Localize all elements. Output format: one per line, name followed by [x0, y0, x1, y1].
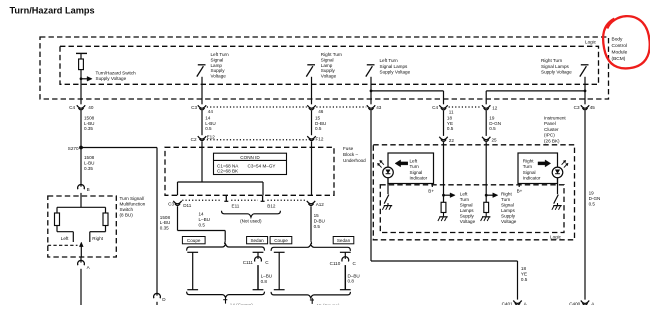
svg-text:Multifunction: Multifunction	[120, 201, 146, 206]
svg-text:B+: B+	[428, 188, 434, 193]
svg-text:Signal Lamps: Signal Lamps	[380, 64, 409, 69]
svg-text:Left Turn: Left Turn	[211, 52, 230, 57]
svg-text:Supply Voltage: Supply Voltage	[541, 69, 572, 74]
svg-text:Left: Left	[410, 158, 418, 163]
wire C3-44 to fuse block E12	[201, 111, 203, 136]
svg-text:Right: Right	[92, 236, 103, 241]
svg-text:Voltage: Voltage	[321, 74, 337, 79]
switch SW-LL in BCM logic	[367, 64, 375, 66]
connector C2 pin E12 of fuse block	[198, 136, 206, 139]
node junction right lamps sense	[485, 194, 488, 197]
svg-text:Instrument: Instrument	[544, 115, 566, 120]
svg-text:L–BU: L–BU	[199, 217, 211, 222]
svg-text:18: 18	[447, 115, 453, 120]
wire S270 branch to D connector drop	[81, 147, 157, 149]
dotted connector-group line row3	[182, 199, 221, 201]
option label Coupe (left)	[182, 237, 205, 244]
svg-text:(IPC): (IPC)	[544, 133, 555, 138]
wire fuse block internal bus	[178, 181, 264, 183]
connector IPC pin 22	[439, 137, 447, 140]
svg-text:Sedan: Sedan	[250, 238, 264, 243]
svg-text:C110: C110	[330, 261, 341, 266]
wire A12 to right option brace	[310, 206, 312, 241]
wire LED to driver switch left	[387, 178, 389, 195]
connector C110 pin C	[342, 257, 349, 262]
option label Coupe (right)	[270, 237, 292, 244]
wire bus stub to D11	[177, 182, 179, 195]
svg-text:B12: B12	[267, 204, 276, 209]
svg-text:S270: S270	[68, 146, 79, 151]
svg-text:44: 44	[208, 109, 214, 114]
wire below connector A to bottom	[80, 269, 82, 305]
switch driver left	[384, 195, 389, 204]
svg-text:Block –: Block –	[343, 152, 359, 157]
svg-text:Signal: Signal	[321, 57, 334, 62]
svg-text:E12: E12	[207, 135, 216, 140]
switch SW-R in BCM logic	[307, 64, 315, 66]
svg-text:Control: Control	[612, 43, 627, 49]
connector C400 pin A	[581, 301, 589, 304]
svg-text:Voltage: Voltage	[211, 74, 227, 79]
BCM outer dashed box	[40, 37, 609, 99]
wire right coupe option	[274, 251, 285, 253]
svg-text:0.8: 0.8	[261, 279, 268, 284]
wire LED to driver switch right	[557, 178, 559, 195]
brace merge left group	[187, 292, 265, 298]
svg-text:Cluster: Cluster	[544, 127, 559, 132]
dotted connector-group line row1 right	[449, 106, 482, 108]
svg-text:Left: Left	[460, 191, 468, 196]
wire 12 to IPC connector 25	[485, 111, 487, 136]
wire across bottom to C401	[371, 260, 518, 262]
connector C401 pin A	[513, 301, 521, 304]
node junction stem5 branch	[584, 90, 587, 93]
wire B into switch	[80, 193, 82, 207]
svg-text:Signal: Signal	[211, 57, 224, 62]
svg-text:Turn/Hazard Lamps: Turn/Hazard Lamps	[10, 6, 95, 16]
svg-text:19: 19	[589, 191, 595, 196]
svg-text:25: 25	[492, 138, 498, 143]
svg-text:D-GN: D-GN	[589, 196, 601, 201]
splice S270	[79, 146, 83, 150]
connector C111 pin C	[255, 257, 262, 262]
svg-text:D11: D11	[183, 203, 192, 208]
wire branch to connector 12	[486, 90, 585, 92]
svg-text:Module: Module	[612, 50, 628, 56]
BCM inner logic dashed box	[60, 46, 599, 84]
svg-text:(Not used): (Not used)	[240, 218, 262, 223]
node junction left lamps sense	[442, 194, 445, 197]
arrow right direction (filled)	[538, 162, 546, 165]
connector IPC pin 25	[482, 137, 490, 140]
connector C3 pin D11	[173, 201, 181, 204]
IPC inner logic dashed box	[380, 185, 564, 233]
light rays left indicator	[381, 161, 384, 165]
power bar terminal, stem 1	[76, 52, 87, 54]
svg-text:14: 14	[205, 116, 211, 121]
LED lamp right indicator	[552, 167, 563, 178]
connector C3 pin 45	[581, 105, 589, 108]
connector C3 pin 44	[198, 105, 206, 108]
stub pin E11 not used	[225, 195, 227, 201]
svg-text:C111: C111	[243, 260, 254, 265]
indicator box Left Turn Signal Indicator	[388, 153, 434, 184]
svg-text:0.5: 0.5	[314, 224, 321, 229]
svg-text:Right: Right	[523, 158, 534, 163]
svg-text:Lamps: Lamps	[460, 208, 474, 213]
svg-text:L-BU: L-BU	[160, 220, 170, 225]
switch SW-RR in BCM logic	[581, 64, 589, 66]
Turn Signal/Multifunction Switch dashed box	[48, 196, 117, 257]
svg-text:(8 BU): (8 BU)	[120, 212, 134, 217]
wire switch to connector A	[80, 257, 82, 263]
svg-text:Supply: Supply	[321, 68, 336, 73]
svg-text:C1=68 NA: C1=68 NA	[217, 163, 239, 168]
svg-text:Indicator: Indicator	[523, 176, 541, 181]
svg-text:1508: 1508	[84, 116, 95, 121]
svg-text:C401: C401	[502, 301, 513, 305]
wire below connector D	[156, 302, 158, 305]
wire left coupe option	[187, 251, 198, 253]
svg-text:(26 BK): (26 BK)	[544, 138, 560, 143]
wire right sedan option with C110	[340, 251, 351, 253]
wire 25 into IPC	[485, 142, 487, 202]
mechanical linkage dashed line	[48, 244, 78, 246]
Fuse Block Underhood dashed box	[165, 147, 334, 195]
svg-text:C400: C400	[569, 301, 580, 305]
svg-text:0.35: 0.35	[160, 225, 169, 230]
svg-text:C3: C3	[168, 202, 174, 207]
svg-text:Supply Voltage: Supply Voltage	[380, 69, 411, 74]
svg-text:Turn/Hazard Switch: Turn/Hazard Switch	[96, 71, 137, 76]
svg-text:0.5: 0.5	[205, 126, 212, 131]
svg-text:C2=68 BK: C2=68 BK	[217, 169, 239, 174]
resistor right coil of switch	[103, 213, 108, 226]
svg-text:0.35: 0.35	[84, 126, 93, 131]
svg-text:L-BU: L-BU	[205, 121, 215, 126]
svg-text:22: 22	[449, 138, 455, 143]
contact Right of switch	[105, 226, 107, 232]
svg-text:0.35: 0.35	[84, 166, 93, 171]
svg-text:Turn: Turn	[410, 164, 420, 169]
svg-text:Signal: Signal	[501, 202, 514, 207]
wire stub below left merge	[225, 298, 227, 304]
svg-text:Signal Lamps: Signal Lamps	[541, 64, 570, 69]
red annotation circle around BCM label	[601, 14, 650, 71]
svg-text:L–BU: L–BU	[261, 274, 273, 279]
svg-text:1508: 1508	[84, 155, 95, 160]
svg-text:15: 15	[314, 213, 320, 218]
connector A inline	[78, 260, 85, 265]
wire C3-45 down right side to C400	[584, 111, 586, 300]
IPC outer dashed box	[373, 145, 574, 240]
wire E12 into fuse block	[201, 141, 203, 182]
svg-text:0.5: 0.5	[315, 126, 322, 131]
svg-text:Lamp: Lamp	[321, 63, 333, 68]
svg-text:C3=54 M–GY: C3=54 M–GY	[248, 163, 276, 168]
dotted connector-group line row1 left	[207, 106, 307, 108]
svg-text:Panel: Panel	[544, 121, 556, 126]
wire internal top rail	[57, 206, 106, 208]
svg-text:Left Turn: Left Turn	[380, 58, 399, 63]
svg-text:L-BU: L-BU	[84, 121, 94, 126]
svg-text:Underhood: Underhood	[343, 158, 366, 163]
svg-text:YE: YE	[521, 271, 527, 276]
svg-text:Body: Body	[612, 37, 624, 43]
svg-text:Right Turn: Right Turn	[541, 58, 563, 63]
option label Sedan (left)	[247, 237, 268, 244]
contact Left of switch	[56, 226, 58, 232]
stub pin B12 not used	[262, 195, 264, 201]
svg-text:Supply: Supply	[211, 68, 226, 73]
ground left indicator	[387, 203, 389, 205]
svg-text:Switch: Switch	[120, 207, 134, 212]
connector D inline	[154, 293, 161, 298]
ground right indicator	[557, 203, 559, 205]
svg-text:CONN ID: CONN ID	[240, 155, 260, 160]
svg-text:Sedan: Sedan	[337, 238, 351, 243]
svg-text:B: B	[87, 187, 90, 192]
svg-text:Supply: Supply	[501, 213, 516, 218]
wire left sedan option with C111	[253, 251, 264, 253]
svg-text:D-GN: D-GN	[489, 121, 501, 126]
brace not-used pins	[222, 211, 281, 217]
svg-text:15: 15	[315, 116, 321, 121]
CONN ID table	[214, 153, 287, 174]
svg-text:0.5: 0.5	[199, 222, 206, 227]
resistor right sense	[484, 202, 489, 212]
svg-text:C2: C2	[191, 137, 197, 142]
brace split right group	[271, 244, 350, 251]
svg-text:A12: A12	[316, 202, 325, 207]
node junction stem4 branch	[370, 90, 373, 93]
wiper arrow of switch	[79, 242, 83, 247]
svg-text:D-BU: D-BU	[315, 121, 326, 126]
svg-text:Right: Right	[501, 191, 512, 196]
svg-text:11: 11	[449, 109, 454, 114]
option label Sedan (right)	[333, 237, 354, 244]
wire 22 into IPC	[443, 142, 445, 202]
wire stem2 to connector C3-44	[201, 77, 203, 105]
svg-text:0.8: 0.8	[348, 279, 355, 284]
svg-text:Turn: Turn	[523, 164, 533, 169]
svg-text:Right Turn: Right Turn	[321, 52, 343, 57]
dotted connector-group line row1 mid	[316, 106, 366, 108]
svg-text:B+: B+	[517, 188, 523, 193]
svg-text:Supply Voltage: Supply Voltage	[96, 76, 127, 81]
svg-text:Turn: Turn	[501, 197, 511, 202]
connector pin F12 of fuse block	[307, 136, 315, 139]
wire C4-40 to splice S270	[80, 111, 82, 148]
svg-text:Logic: Logic	[585, 39, 597, 44]
resistor R1 in BCM	[79, 59, 84, 70]
svg-text:C4: C4	[432, 105, 438, 110]
svg-text:E11: E11	[232, 204, 240, 209]
svg-text:12: 12	[492, 106, 498, 111]
svg-text:D-BU: D-BU	[314, 218, 325, 223]
indicator box Right Turn Signal Indicator	[518, 153, 558, 184]
svg-text:Supply: Supply	[460, 213, 475, 218]
svg-text:Coupe: Coupe	[187, 238, 201, 243]
wire stem5 down	[584, 77, 586, 105]
connector pin 12	[482, 105, 490, 108]
svg-text:1508: 1508	[160, 215, 171, 220]
svg-text:19: 19	[489, 115, 495, 120]
wire 43 down left side of IPC	[370, 111, 372, 261]
svg-text:0.5: 0.5	[489, 126, 496, 131]
terminal B+ left	[431, 184, 433, 187]
resistor left coil of switch	[55, 213, 60, 226]
switch driver right	[554, 195, 559, 204]
svg-text:40: 40	[88, 105, 94, 110]
svg-text:L-BU: L-BU	[84, 160, 94, 165]
wire branch to C4-11	[371, 90, 444, 92]
svg-text:Turn: Turn	[460, 197, 470, 202]
svg-text:Indicator: Indicator	[410, 176, 428, 181]
svg-text:C4: C4	[69, 105, 75, 110]
svg-text:(BCM): (BCM)	[612, 56, 626, 62]
svg-text:Fuse: Fuse	[343, 146, 354, 151]
connector C4 pin 40	[77, 105, 85, 108]
wire stub below right merge	[311, 298, 313, 304]
svg-text:Signal: Signal	[460, 202, 473, 207]
ground left sense	[443, 213, 445, 217]
connector B of multifunction switch	[78, 185, 85, 190]
svg-text:Voltage: Voltage	[460, 219, 476, 224]
LED lamp left indicator	[383, 167, 394, 178]
wire D11 to left option brace	[177, 206, 179, 230]
svg-text:0.5: 0.5	[589, 201, 596, 206]
dotted connector-group line row2	[207, 139, 307, 141]
node junction arrow Turn/Hazard Switch Supply Voltage	[80, 77, 83, 80]
svg-text:18: 18	[521, 266, 527, 271]
svg-text:Logic: Logic	[550, 234, 562, 239]
connector pin 43	[367, 105, 375, 108]
brace split left group	[187, 244, 265, 251]
svg-text:C3: C3	[574, 105, 580, 110]
svg-text:C3: C3	[191, 105, 197, 110]
resistor left sense	[441, 202, 446, 212]
arrow left direction (filled)	[400, 162, 408, 165]
connector pin A12	[307, 201, 315, 204]
brace merge right group	[271, 292, 350, 298]
connector pin 46	[307, 105, 315, 108]
wire stem4 down and branch	[370, 77, 372, 105]
svg-text:14: 14	[199, 212, 205, 217]
light rays right indicator	[562, 161, 565, 165]
wire stem1 resistor to connector C4-40	[80, 70, 82, 105]
wire C4-11 to IPC connector 22	[443, 111, 445, 136]
wire S270 to connector B	[80, 148, 82, 187]
connector C4 pin 11	[439, 105, 447, 108]
wire F12 through fuse block to A12	[311, 141, 313, 195]
ground right sense	[485, 213, 487, 217]
terminal B+ right	[518, 184, 520, 187]
wire stem3 to connector 46	[311, 77, 313, 105]
wire 46 to fuse block F12	[311, 111, 313, 136]
svg-text:Turn Signal/: Turn Signal/	[120, 196, 145, 201]
svg-text:Signal: Signal	[410, 170, 423, 175]
switch SW-L in BCM logic	[198, 64, 206, 66]
svg-text:Lamps: Lamps	[501, 208, 515, 213]
svg-text:46: 46	[318, 109, 324, 114]
svg-text:Coupe: Coupe	[274, 238, 288, 243]
svg-text:YE: YE	[447, 121, 453, 126]
svg-text:Signal: Signal	[523, 170, 536, 175]
svg-text:Left: Left	[61, 236, 69, 241]
svg-text:45: 45	[590, 105, 596, 110]
svg-text:D–BU: D–BU	[348, 273, 360, 278]
wire bus stub to B12	[262, 182, 264, 195]
svg-text:Lamp: Lamp	[211, 63, 223, 68]
svg-text:0.5: 0.5	[447, 126, 454, 131]
svg-text:0.5: 0.5	[521, 277, 528, 282]
svg-text:F12: F12	[316, 136, 324, 141]
svg-text:43: 43	[376, 105, 382, 110]
svg-text:Voltage: Voltage	[501, 219, 517, 224]
